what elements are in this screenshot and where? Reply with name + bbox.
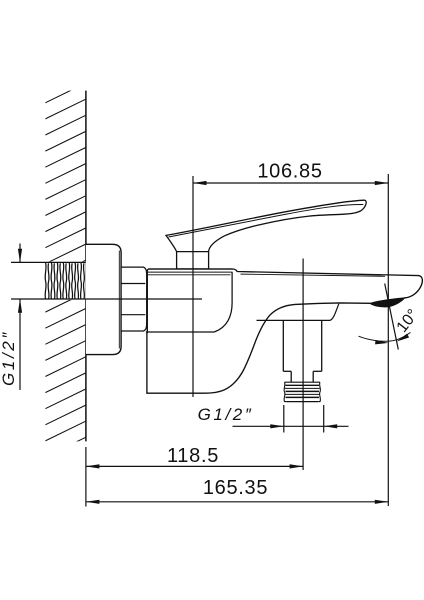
svg-text:G1/2″: G1/2″ [0,330,18,386]
svg-text:165.35: 165.35 [203,477,268,499]
svg-text:106.85: 106.85 [257,160,322,182]
svg-text:G1/2″: G1/2″ [198,405,254,424]
svg-text:118.5: 118.5 [167,445,219,467]
